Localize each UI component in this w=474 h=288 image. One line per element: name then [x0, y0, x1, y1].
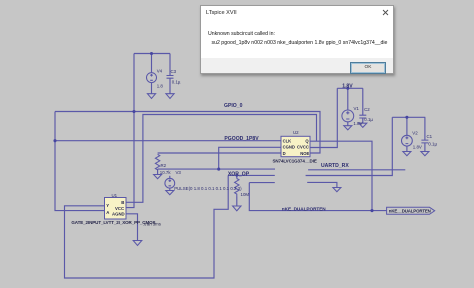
ground below U1 AGND [133, 241, 142, 246]
ground below C3 [166, 94, 174, 99]
svg-text:0.1µ: 0.1µ [428, 141, 437, 146]
wire GPIO_0 left drop to U1 A [55, 112, 105, 211]
svg-text:CGND: CGND [283, 145, 295, 150]
wire R2 top rail to U2 D [158, 152, 281, 154]
junction 1.8V rail [346, 87, 349, 90]
wire C3 bottom stem [169, 78, 171, 93]
wire C1 top stem [424, 117, 426, 140]
wire U1 AGND to ground [126, 214, 138, 241]
wire V2 bottom stem [406, 146, 408, 151]
svg-text:C1: C1 [427, 134, 433, 139]
wire U1 B to U2 Q [126, 115, 317, 203]
wire V4 bottom stem [151, 82, 153, 93]
svg-text:1.8V: 1.8V [413, 145, 422, 150]
ground below C2 [359, 123, 367, 127]
wire V2/C1 top rail [392, 116, 425, 118]
svg-text:B: B [121, 200, 124, 205]
wire V3 bottom stub [169, 188, 171, 190]
svg-text:V2: V2 [412, 130, 418, 135]
capacitor C2 [359, 115, 366, 118]
wire C2 bottom stem [362, 118, 364, 123]
svg-text:V4: V4 [157, 68, 163, 73]
ground below V4 [147, 94, 155, 99]
svg-text:CVCC: CVCC [297, 145, 309, 150]
wire UARTD_RX [308, 169, 405, 171]
svg-text:C3: C3 [171, 69, 177, 74]
svg-text:R2: R2 [161, 163, 167, 168]
junction GPIO_0 x 1.8 riser [132, 110, 135, 113]
svg-text:D: D [283, 151, 286, 156]
voltage source V2 [402, 135, 413, 146]
svg-text:nKE__DUALPORTEN: nKE__DUALPORTEN [389, 209, 431, 214]
ground below R3 [233, 206, 241, 211]
svg-text:1.8: 1.8 [157, 84, 164, 89]
svg-text:V3: V3 [176, 170, 182, 175]
capacitor C1 [421, 140, 428, 143]
wire V1 top stem [347, 88, 349, 110]
wire R2 bottom to ground [157, 169, 159, 174]
wire C3 top stem [169, 54, 171, 76]
resistor R3 10M [235, 179, 239, 197]
capacitor C3 [167, 76, 174, 79]
svg-text:NOE: NOE [300, 151, 309, 156]
svg-text:PGOOD_1P8V: PGOOD_1P8V [224, 136, 259, 142]
svg-text:GPIO_0: GPIO_0 [224, 103, 243, 109]
port flag nKE__DUALPORTEN [387, 207, 435, 214]
ground below V2 [403, 152, 411, 156]
IC U2 body [281, 136, 310, 156]
wire V2 top stem [406, 117, 408, 135]
wire nKE_DUALPORTEN with stub [249, 183, 386, 211]
wire stub to ground right [307, 182, 337, 187]
voltage source V3 [165, 178, 175, 188]
wire 1.8V to V2 rail [306, 117, 393, 175]
svg-text:.tran 3ms: .tran 3ms [143, 222, 161, 227]
svg-text:AGND: AGND [112, 212, 125, 217]
svg-text:PULSE(0 1.8 0.1 0.1 0.1 0.1 0.: PULSE(0 1.8 0.1 0.1 0.1 0.1 0.2 3) [174, 186, 242, 191]
wire XOR_OP [158, 168, 275, 170]
wire GPIO_0 net to U2 NOE [55, 112, 320, 154]
wire U2 CGND riser [219, 147, 281, 169]
wire V3 top stub [169, 176, 171, 179]
junction nKE wire [370, 209, 373, 212]
svg-text:XOR_OP: XOR_OP [228, 171, 250, 177]
wire 1.8V rail V1/C2 [337, 87, 363, 89]
svg-text:U1: U1 [112, 193, 118, 198]
dialog LTspice XVII [200, 5, 394, 74]
wire C1 bottom stem [424, 143, 426, 151]
svg-text:1.8V: 1.8V [342, 84, 353, 90]
junction L2 R3 [236, 174, 239, 177]
wire PGOOD_1P8V to U2 CLK [55, 140, 281, 142]
svg-text:VCC: VCC [115, 206, 124, 211]
junction V2 rail [405, 116, 408, 119]
svg-text:SN74LVC1G374__DIE: SN74LVC1G374__DIE [273, 159, 317, 164]
ground below V1 [344, 126, 352, 130]
junction XOR_OP [217, 168, 220, 171]
ground below V3 [166, 191, 174, 195]
svg-text:10M: 10M [241, 192, 250, 197]
wire L2 dangling [228, 174, 275, 176]
svg-text:0.1µ: 0.1µ [172, 79, 181, 84]
wire U1 VCC riser to 1.8 rail [126, 54, 134, 208]
svg-text:10.7k: 10.7k [160, 170, 172, 175]
svg-text:C2: C2 [364, 107, 370, 112]
svg-text:UARTD_RX: UARTD_RX [321, 163, 349, 169]
wire U2 Q to nKE_DUALPORTEN [310, 141, 372, 210]
svg-text:V1: V1 [354, 106, 360, 111]
svg-text:nKE_DUALPORTEN: nKE_DUALPORTEN [282, 206, 326, 211]
svg-text:A: A [106, 210, 109, 215]
svg-text:U2: U2 [293, 130, 299, 135]
wire V1 bottom stem [347, 122, 349, 126]
svg-text:1.8V: 1.8V [353, 121, 362, 126]
wire U1 Y loop to L2 [65, 175, 229, 278]
junction PGOOD left [53, 139, 56, 142]
ground below R2 [154, 175, 162, 179]
IC U1 body [105, 198, 127, 220]
svg-text:CLK: CLK [283, 138, 292, 143]
svg-text:Y: Y [106, 203, 109, 208]
svg-text:0.1µ: 0.1µ [364, 117, 373, 122]
wire V4/C3 top rail [134, 53, 170, 55]
ground below C1 [421, 152, 429, 156]
wire U2 CVCC to 1.8V rail [310, 88, 337, 147]
wire C2 top stem [362, 88, 364, 115]
junction V4 rail [150, 52, 153, 55]
resistor R2 [155, 154, 159, 170]
ground right stub [333, 188, 341, 192]
wire R3 10M stub [236, 175, 238, 206]
voltage source V1 [342, 110, 354, 122]
voltage source V4 [147, 73, 157, 83]
wire V4 top stem [151, 54, 153, 73]
